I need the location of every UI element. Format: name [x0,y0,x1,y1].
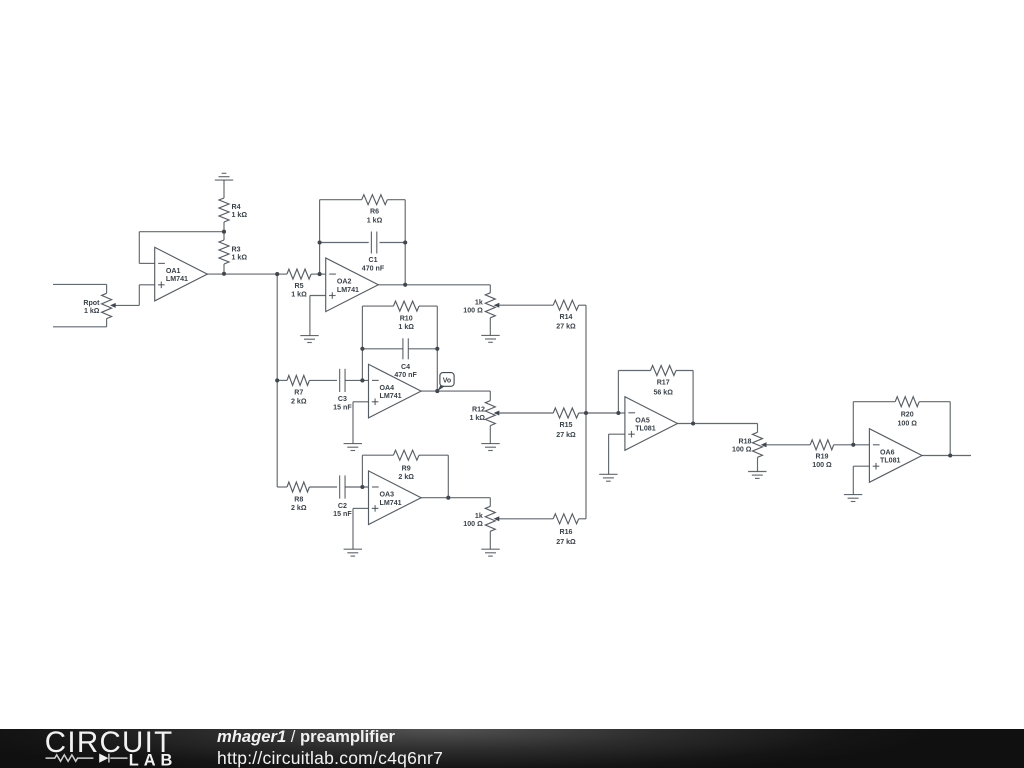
op-amp OA1 [155,247,208,301]
svg-text:1 kΩ: 1 kΩ [232,253,248,261]
svg-text:1 kΩ: 1 kΩ [398,323,414,331]
svg-text:R12: R12 [472,406,485,414]
wire R17 top left [618,370,650,372]
footer title text [217,729,395,745]
op-amp OA2 [326,258,379,312]
svg-text:1 kΩ: 1 kΩ [291,291,307,299]
wire C2 to OA3 [345,486,368,488]
ground pot 1k top [481,335,499,342]
svg-text:TL081: TL081 [880,457,901,465]
label R4 [232,203,248,219]
wiper R12 [494,411,554,416]
svg-text:R4: R4 [232,203,241,211]
label OA5 [635,416,656,432]
svg-text:LM741: LM741 [380,392,402,400]
potentiometer 1k (top) [485,285,495,336]
wire summing bus [585,305,587,519]
wire R20 top right [919,402,950,456]
ground OA4 [344,444,362,451]
wiper 1k bottom [494,516,554,521]
label R18 [732,437,752,453]
potentiometer Rpot [53,284,112,326]
label R5 [291,282,307,299]
node OA3 output feedback [446,496,450,500]
wiper 1k top [494,303,554,308]
wire R20 top left [853,401,895,403]
wire into OA5 [618,412,625,414]
wire OA1 noninverting input [116,285,155,306]
logo resistor-diode glyph [46,755,94,761]
capacitor C4 [403,338,408,359]
svg-text:OA4: OA4 [380,384,395,392]
wire C1 row [320,242,406,244]
svg-text:LAB: LAB [129,751,177,768]
node branch to lower stages [275,272,279,276]
svg-text:OA3: OA3 [380,491,395,499]
label R3 [232,245,248,261]
node between R4 and R3 [222,230,226,234]
label R14 [556,313,576,331]
wire vertical branch bus [276,274,278,487]
label C3 [333,395,352,411]
svg-text:470 nF: 470 nF [394,371,417,379]
capacitor C3 [340,369,345,392]
wire OA3 noninverting input [353,508,369,549]
node OA1 output [222,272,226,276]
resistor R17 [651,366,676,376]
label R20 [897,411,917,428]
wire OA2 feedback left [319,200,321,274]
ground R12 [481,444,499,451]
node OA5 inverting input [616,411,620,415]
wire R6 top left [320,199,362,201]
wire OA5 output [678,423,758,425]
svg-text:100 Ω: 100 Ω [732,446,752,454]
label OA3 [380,491,402,507]
ground OA3 [344,549,362,556]
wire R9 top left [362,454,393,456]
op-amp OA3 [369,471,422,525]
svg-text:R8: R8 [294,495,303,503]
svg-text:R18: R18 [738,437,751,445]
wire R10 top left [362,305,393,307]
svg-text:C4: C4 [401,363,410,371]
node OA5 output feedback [691,421,695,425]
wire OA2 feedback right to output [404,243,406,285]
svg-text:15 nF: 15 nF [333,403,352,411]
label R10 [398,315,414,331]
node OA2 inverting input [318,272,322,276]
wire OA4 feedback right [436,349,438,391]
svg-text:27 kΩ: 27 kΩ [556,431,576,439]
svg-text:2 kΩ: 2 kΩ [398,473,414,481]
wire OA4 noninverting input [353,402,369,444]
logo diode triangle [99,754,108,763]
label R16 [556,528,576,546]
node OA4 output feedback [435,389,439,393]
wire OA2 noninverting input [310,296,326,336]
label OA4 [380,384,402,400]
resistor R9 [393,450,419,460]
svg-text:R10: R10 [400,315,413,323]
resistor R19 [810,440,869,450]
resistor R3 [219,232,229,274]
wire R9 top right [419,455,448,498]
svg-text:56 kΩ: 56 kΩ [653,389,673,397]
wire OA3 output [421,497,490,499]
ground pot 1k bottom [481,549,499,556]
wire OA6 output [922,455,971,457]
label C4 [394,363,417,379]
svg-text:1 kΩ: 1 kΩ [84,307,100,315]
resistor R10 [393,301,419,311]
ground OA2 [300,336,318,343]
resistor R15 [553,408,618,418]
potentiometer R18 [753,424,763,472]
svg-text:1 kΩ: 1 kΩ [232,211,248,219]
svg-text:OA1: OA1 [166,267,181,275]
flag Vo [437,373,454,392]
ground (top, rotated) for R4 [215,173,233,198]
label R9 [398,464,414,480]
ground R18 [748,472,766,479]
svg-text:LM741: LM741 [166,275,188,283]
svg-text:C2: C2 [338,502,347,510]
op-amp OA5 [625,397,678,451]
label R12 [469,406,485,422]
wire OA1 output [207,273,277,275]
svg-text:C3: C3 [338,395,347,403]
svg-text:R14: R14 [559,313,572,321]
footer url text [217,750,443,768]
resistor R14 [553,300,586,310]
svg-text:TL081: TL081 [635,425,656,433]
svg-text:1k: 1k [475,512,483,520]
svg-text:Vo: Vo [443,377,451,384]
node C1 left [318,240,322,244]
node C4 right [435,347,439,351]
svg-text:R19: R19 [815,453,828,461]
Rpot wiper [110,303,116,308]
node OA3 inverting input [360,485,364,489]
svg-text:15 nF: 15 nF [333,510,352,518]
resistor R4 [219,198,229,232]
svg-text:2 kΩ: 2 kΩ [291,504,307,512]
label OA1 [166,267,188,283]
label C2 [333,502,352,518]
label R15 [556,421,576,439]
svg-text:LM741: LM741 [337,286,359,294]
svg-text:100 Ω: 100 Ω [463,520,483,528]
wire R6 top right [387,200,405,243]
svg-text:100 Ω: 100 Ω [463,307,483,315]
op-amp OA4 [369,364,422,418]
svg-text:R20: R20 [901,411,914,419]
node C4 left [360,347,364,351]
node C1 right [403,240,407,244]
svg-text:100 Ω: 100 Ω [897,419,917,427]
wire R10 top right [419,306,437,349]
ground OA6 [844,495,862,502]
svg-text:R6: R6 [370,208,379,216]
label 1k top [463,298,483,314]
wire feedback to OA1 inverting input [139,232,224,264]
resistor R5 [277,269,326,279]
svg-text:OA5: OA5 [635,416,650,424]
wire R17 top right [676,371,693,424]
label R8 [291,495,307,512]
potentiometer 1k (bottom) [485,498,495,550]
svg-text:R5: R5 [294,282,303,290]
CircuitLab logo text CIRCUIT [0,729,210,768]
capacitor C1 [371,232,376,254]
potentiometer R12 [485,391,495,444]
wire OA6 feedback left [852,402,854,445]
svg-text:C1: C1 [368,256,377,264]
resistor R8 [277,482,337,492]
label OA6 [880,448,901,464]
svg-text:27 kΩ: 27 kΩ [556,323,576,331]
op-amp OA6 [869,429,922,483]
label R17 [653,379,673,397]
resistor R20 [895,397,919,407]
svg-text:R17: R17 [657,379,670,387]
wire OA4 feedback left [361,306,363,380]
svg-text:1 kΩ: 1 kΩ [367,216,383,224]
node OA4 inverting input [360,378,364,382]
svg-text:470 nF: 470 nF [362,264,385,272]
svg-text:2 kΩ: 2 kΩ [291,397,307,405]
node OA2 output feedback [403,283,407,287]
svg-text:100 Ω: 100 Ω [812,461,832,469]
label C1 [362,256,385,272]
resistor R16 [553,514,586,524]
wire OA6 noninverting input [853,466,869,494]
resistor R6 [362,195,388,205]
wire C4 row [362,348,437,350]
svg-text:R15: R15 [559,421,572,429]
wiper R18 [761,442,810,447]
label R7 [291,389,307,406]
label R6 [367,208,383,225]
ground OA5 [599,474,617,481]
label Rpot [83,299,100,315]
svg-text:1 kΩ: 1 kΩ [469,414,485,422]
resistor R7 [277,375,337,385]
label OA2 [337,278,359,294]
node OA6 inverting input [851,443,855,447]
svg-text:OA6: OA6 [880,448,895,456]
svg-text:OA2: OA2 [337,278,352,286]
capacitor C2 [340,475,345,498]
svg-text:Rpot: Rpot [83,299,100,307]
node bus R15 [584,411,588,415]
node OA6 output feedback [948,453,952,457]
svg-text:R7: R7 [294,389,303,397]
wire OA3 feedback left [361,455,363,487]
label 1k bottom [463,512,483,528]
wire OA4 output [421,390,490,392]
wire OA2 output [378,284,490,286]
wire OA5 feedback left [617,371,619,414]
svg-text:R3: R3 [232,245,241,253]
svg-text:R16: R16 [559,528,572,536]
node R7 branch [275,378,279,382]
wire OA5 noninverting input [609,434,625,474]
wire C3 to OA4 [345,379,368,381]
svg-text:27 kΩ: 27 kΩ [556,538,576,546]
svg-text:LM741: LM741 [380,499,402,507]
label R19 [812,453,832,470]
svg-text:1k: 1k [475,298,483,306]
svg-text:R9: R9 [402,464,411,472]
